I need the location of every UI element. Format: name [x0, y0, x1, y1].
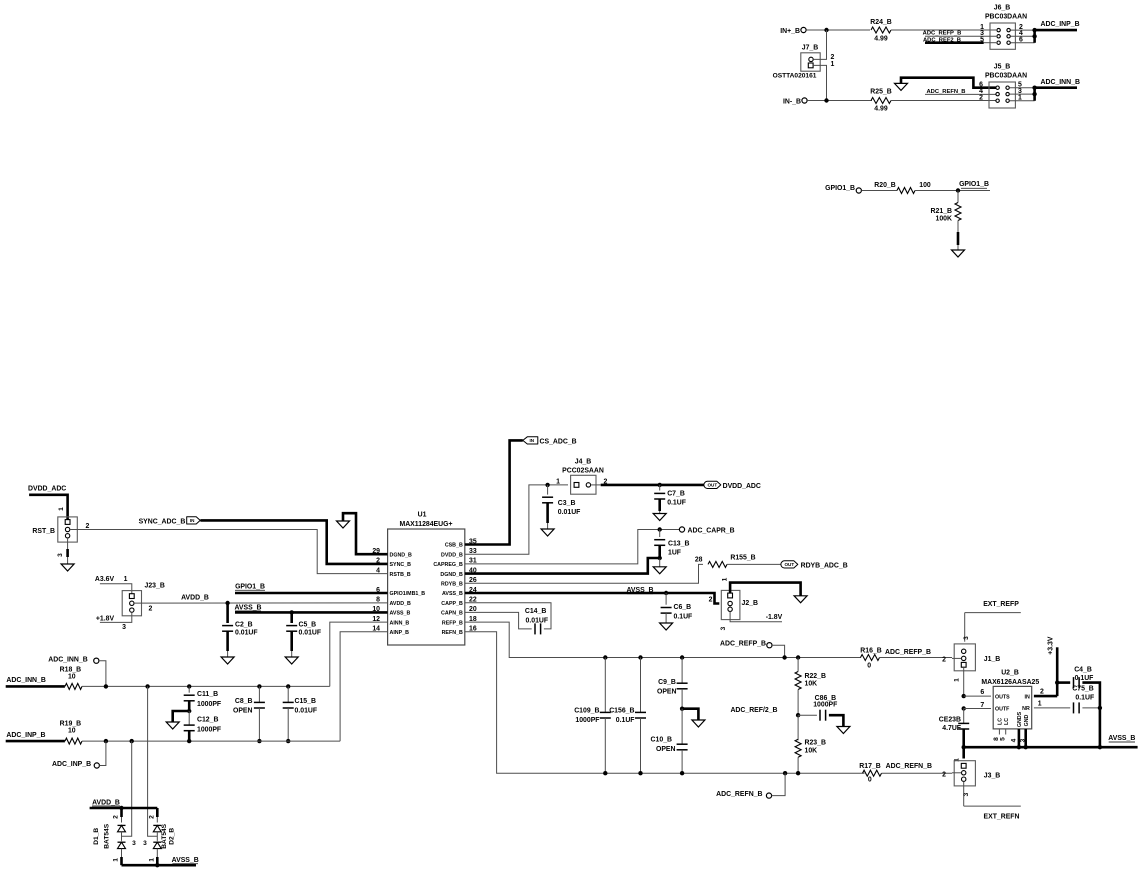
svg-text:1: 1 — [58, 507, 65, 511]
wire R24 to J6 pin1 — [891, 29, 996, 31]
capacitor C7_B plates — [654, 493, 665, 499]
power label +3.3V — [1048, 636, 1055, 655]
svg-text:100K: 100K — [936, 216, 952, 223]
wire AVDD_B diode — [90, 807, 158, 810]
U1 pin name DGND_B — [390, 552, 413, 558]
pin number 2 — [149, 606, 153, 613]
terminal IN+_B — [801, 27, 806, 32]
pin number 1 — [1018, 95, 1022, 102]
J5_B right pin 3 — [1006, 92, 1009, 95]
junction R23 bottom — [796, 771, 800, 775]
label J6_B — [994, 5, 1010, 12]
capacitor C4_B plates — [1074, 677, 1080, 688]
U1 pin name CAPN_B right — [441, 611, 463, 617]
wire J5 pin5 out — [1010, 87, 1035, 89]
svg-text:R16_B: R16_B — [860, 648, 881, 655]
diode D2 lower — [153, 842, 161, 848]
ground below C7 — [653, 514, 666, 521]
terminal ADC_INP_B bottom — [52, 761, 91, 768]
terminal GPIO1_B — [856, 188, 861, 193]
value C86_B 1000PF — [813, 701, 837, 708]
junction INN C15 — [286, 684, 290, 688]
wire J2 pin1 ground — [730, 583, 801, 596]
U2 pin name OUTF — [995, 707, 1010, 713]
net label GPIO1_B right — [959, 181, 989, 188]
U1 pin name GPIO1/MB1_B — [390, 591, 426, 597]
ground REF mid — [692, 720, 705, 727]
wire RST pin3 thick — [66, 549, 69, 557]
wire R22 bottom — [797, 690, 799, 716]
terminal IN-_B — [802, 98, 807, 103]
capacitor C12_B plates — [184, 725, 195, 731]
svg-text:0.01UF: 0.01UF — [558, 509, 581, 516]
wire C86 to ground — [829, 715, 844, 726]
svg-text:10K: 10K — [805, 681, 818, 688]
svg-text:AVSS_B: AVSS_B — [390, 611, 411, 617]
J6_B right pin 2 — [1007, 28, 1010, 31]
port SYNC_ADC_B — [139, 518, 186, 525]
wire C7 top — [659, 485, 661, 491]
wire pin26 up — [465, 564, 703, 583]
J2 pin 2 — [728, 601, 732, 605]
wire C13 ground stub — [659, 558, 661, 567]
wire J6 pin6 out — [1011, 42, 1035, 44]
junction INN terminal — [104, 684, 108, 688]
wire ADC_REFP tap — [772, 645, 785, 657]
svg-text:R155_B: R155_B — [730, 555, 755, 562]
net label ADC_REFP_B right — [885, 649, 931, 656]
ground symbol near J5 — [895, 83, 908, 90]
terminal ADC_INN_B top — [48, 657, 87, 664]
label R21_B — [931, 208, 952, 215]
svg-text:1000PF: 1000PF — [813, 701, 837, 708]
resistor R20_B — [897, 188, 915, 194]
wire R155 to port — [727, 563, 782, 565]
value C2_B 0.01UF — [235, 630, 258, 637]
connector J5_B body — [989, 82, 1015, 108]
resistor R18_B zigzag — [65, 683, 82, 689]
terminal ADC_CAPR_B — [679, 527, 684, 532]
label PBC03DAAN J6 — [985, 14, 1027, 21]
svg-text:C11_B: C11_B — [197, 691, 218, 698]
wire ADC_REFP_B to J6 pin3 — [925, 35, 996, 37]
pin 1 rotated D2 — [148, 858, 155, 862]
label C6_B — [674, 604, 692, 611]
wire bus ADC_INN_B — [1035, 88, 1077, 101]
port IN SYNC_ADC_B — [187, 517, 201, 524]
U1 pin number 10 — [372, 606, 380, 613]
junction J5 bus mid — [1032, 92, 1036, 96]
wire J2 pin3 — [730, 612, 782, 622]
wire A3.6V to J23 pin1 — [100, 584, 132, 594]
J1 pin 1 — [961, 662, 966, 667]
pin number 3 rotated — [720, 626, 727, 630]
net label AVSS_B diode — [172, 857, 199, 864]
svg-text:2: 2 — [149, 606, 153, 613]
wire ADC_REFN_B to J5 pin4 — [925, 93, 996, 95]
svg-text:IN-_B: IN-_B — [783, 99, 801, 106]
terminal ADC_REFP_B — [720, 640, 766, 647]
U1 pin number 8 — [376, 597, 380, 604]
wire C4 left — [1057, 681, 1070, 684]
value R16_B 0 — [867, 662, 871, 669]
label R23_B — [805, 740, 826, 747]
wire J5 pin1 out — [1010, 100, 1035, 102]
wire C156 bottom — [640, 718, 642, 773]
svg-text:OUTS: OUTS — [995, 694, 1010, 700]
pin number 2 — [942, 657, 946, 664]
label J5_B — [994, 64, 1010, 71]
diode D2 upper — [153, 825, 161, 831]
ground below C2 — [221, 657, 234, 664]
net label ADC_REF/2_B — [730, 707, 777, 714]
wire C75 right — [1082, 707, 1100, 709]
junction INP D1 riser — [130, 739, 134, 743]
junction C13 / DGND pin40 — [658, 556, 662, 560]
label C8_B — [235, 698, 253, 705]
svg-text:LC: LC — [1004, 718, 1010, 725]
wire GPIO1 to R21 — [957, 191, 959, 203]
label J2_B — [742, 600, 758, 607]
resistor R16_B zigzag — [861, 655, 880, 661]
junction J6 bus top — [1032, 28, 1036, 32]
value C156_B 0.1UF — [616, 717, 635, 724]
wire NR to C75 — [1034, 707, 1070, 709]
J3 pin 1 — [961, 763, 966, 768]
svg-text:SYNC_B: SYNC_B — [390, 562, 412, 568]
wire mid to ground — [682, 709, 698, 720]
svg-text:R23_B: R23_B — [805, 740, 826, 747]
net label ADC_INN_B — [1041, 79, 1080, 86]
value C75_B 0.1UF — [1075, 695, 1094, 702]
junction R22 top — [796, 655, 800, 659]
svg-text:IN: IN — [1024, 694, 1029, 700]
value R24_B 4.99 — [874, 36, 888, 43]
svg-text:2: 2 — [1040, 689, 1044, 696]
wire C3 ground stub — [547, 523, 549, 529]
net label GPIO1_B — [235, 584, 265, 591]
svg-text:ADC_REFN_B: ADC_REFN_B — [716, 791, 762, 798]
svg-text:R22_B: R22_B — [805, 673, 826, 680]
wire J5 pin3 out — [1010, 93, 1035, 95]
connector J2_B body — [721, 590, 740, 619]
capacitor C10_B plates — [677, 744, 688, 750]
svg-text:0.01UF: 0.01UF — [299, 630, 322, 637]
junction INP terminal — [104, 739, 108, 743]
label J7_B — [802, 45, 818, 52]
wire +1.8V to J23 pin3 — [100, 612, 132, 622]
J4 pin 2 — [586, 483, 590, 487]
wire pin40 to C13 node — [465, 558, 660, 574]
U1 pin number 24 — [469, 587, 477, 594]
wire AVSS to J3 pin1 — [962, 747, 965, 758]
svg-text:R21_B: R21_B — [931, 208, 952, 215]
U1 pin number 26 — [469, 577, 477, 584]
pin number 2 U2 — [1040, 689, 1044, 696]
svg-text:R17_B: R17_B — [859, 763, 880, 770]
pin number 5 rotated — [999, 737, 1006, 741]
wire C10 top — [681, 709, 683, 744]
svg-text:2: 2 — [148, 815, 155, 819]
wire LC1 stub — [998, 729, 1000, 735]
svg-text:1UF: 1UF — [668, 550, 681, 557]
U1 pin name AVSS_B — [390, 611, 411, 617]
pin 2 rotated D1 — [113, 815, 120, 819]
J3 pin 3 — [962, 777, 966, 781]
junction INN C8 — [257, 684, 261, 688]
svg-text:0.1UF: 0.1UF — [674, 614, 693, 621]
capacitor C13_B plates — [654, 540, 665, 546]
svg-text:A3.6V: A3.6V — [95, 576, 115, 583]
U1 pin name RSTB_B — [390, 572, 411, 578]
svg-text:1: 1 — [148, 858, 155, 862]
label R16_B — [860, 648, 881, 655]
label PCC02SAAN — [562, 468, 604, 475]
resistor R24_B — [871, 27, 891, 33]
label R19_B — [60, 720, 81, 727]
svg-text:3: 3 — [143, 840, 147, 847]
pin 3 D2 — [143, 840, 147, 847]
ground below RST_B — [61, 564, 74, 571]
wire ADC_REF2_B to J6 pin5 — [984, 42, 996, 44]
svg-text:GPIO1/MB1_B: GPIO1/MB1_B — [390, 591, 426, 597]
connector J1_B body — [954, 644, 975, 671]
junction C7 tap — [658, 483, 662, 487]
net label ADC_INP_B — [1041, 21, 1080, 28]
junction INN D2 riser — [145, 684, 149, 688]
svg-text:2: 2 — [979, 95, 983, 102]
net label AVSS_B — [234, 605, 261, 612]
pin number 1 rotated J1 — [954, 678, 961, 682]
svg-text:CAPREG_B: CAPREG_B — [433, 562, 463, 568]
svg-text:J2_B: J2_B — [742, 600, 758, 607]
net label ADC_REFP_B at J6 — [923, 30, 962, 36]
wire EXT_REFP bar — [965, 612, 1021, 614]
wire R23 top — [797, 715, 799, 740]
svg-text:J23_B: J23_B — [145, 583, 165, 590]
svg-text:1000PF: 1000PF — [575, 717, 599, 724]
label C14_B — [525, 608, 546, 615]
label C11_B — [197, 691, 218, 698]
RST pin 2 — [65, 527, 69, 531]
U2 pin name NR — [1022, 706, 1030, 712]
ground symbol DGND — [337, 521, 350, 528]
svg-text:GPIO1_B: GPIO1_B — [825, 185, 855, 192]
power label A3.6V — [95, 576, 115, 583]
pin number 2 — [604, 478, 608, 485]
svg-text:3: 3 — [1019, 738, 1026, 742]
svg-text:1: 1 — [113, 858, 120, 862]
U2 pin name GND — [1024, 714, 1030, 726]
svg-text:R18_B: R18_B — [60, 667, 81, 674]
terminal circle ADC_INN_B — [94, 658, 99, 663]
junction C11/C12 mid — [187, 709, 191, 713]
svg-text:C5_B: C5_B — [299, 622, 317, 629]
ground below C5 — [285, 657, 298, 664]
pin number 1 — [980, 24, 984, 31]
wire C13 bottom — [658, 545, 661, 558]
label R17_B — [859, 763, 880, 770]
svg-text:3: 3 — [57, 553, 64, 557]
wire ADC_INP tap — [99, 741, 106, 765]
junction AVSS D2 — [155, 863, 159, 867]
power label -1.8V — [766, 614, 783, 621]
junction INP C15 — [286, 739, 290, 743]
junction IN- / J7 tap — [824, 98, 828, 102]
svg-text:3: 3 — [720, 626, 727, 630]
J6_B left pin 3 — [997, 35, 1000, 38]
svg-text:ADC_CAPR_B: ADC_CAPR_B — [688, 528, 735, 535]
junction C4 AVSS — [1098, 745, 1102, 749]
power label +1.8V — [96, 616, 115, 623]
svg-text:+1.8V: +1.8V — [96, 616, 115, 623]
net label ADC_REF2_B at J6 — [923, 37, 961, 43]
U1 pin number 40 — [469, 567, 477, 574]
wire C3 top — [547, 485, 549, 495]
svg-text:PBC03DAAN: PBC03DAAN — [985, 73, 1027, 80]
wire C8 top — [258, 686, 260, 702]
value C11_B 1000PF — [197, 701, 221, 708]
svg-text:R20_B: R20_B — [874, 182, 895, 189]
connector RST_B body — [58, 517, 78, 542]
pin label 28 — [695, 557, 703, 564]
value C7_B 0.1UF — [667, 499, 686, 506]
wire C15 bottom — [287, 708, 289, 741]
RST pin 3 — [65, 534, 69, 538]
svg-text:GNDS: GNDS — [1017, 711, 1023, 727]
wire R25 to J5 pin2 — [891, 100, 996, 102]
svg-text:C10_B: C10_B — [651, 736, 672, 743]
svg-text:LC: LC — [998, 718, 1004, 725]
svg-text:DVDD_ADC: DVDD_ADC — [28, 486, 66, 493]
svg-text:2: 2 — [942, 772, 946, 779]
pin number 8 rotated — [993, 737, 1000, 741]
wire OUTF — [964, 708, 991, 710]
U2 pin name IN — [1024, 694, 1029, 700]
pin number 1 — [831, 61, 835, 68]
label D1_B — [93, 828, 100, 845]
ground below C13 — [653, 567, 666, 574]
svg-text:3: 3 — [122, 624, 126, 631]
wire RST pin2 to RSTB pin4 — [70, 530, 388, 574]
label CE23B — [939, 717, 961, 724]
svg-text:J6_B: J6_B — [994, 5, 1010, 12]
wire AVSS_B to pin10 — [235, 611, 388, 614]
svg-text:C2_B: C2_B — [235, 622, 253, 629]
svg-text:CAPP_B: CAPP_B — [441, 601, 463, 607]
U2 pin name GNDS — [1017, 711, 1023, 727]
svg-text:C12_B: C12_B — [197, 716, 218, 723]
label C12_B — [197, 716, 218, 723]
ground below C3 — [541, 529, 554, 536]
U1 pin number 6 — [376, 587, 380, 594]
svg-text:-1.8V: -1.8V — [766, 614, 783, 621]
svg-text:RST_B: RST_B — [32, 528, 55, 535]
J5_B left pin 4 — [996, 92, 999, 95]
capacitor CE23B plates — [958, 723, 969, 729]
wire R21 lower — [957, 221, 959, 233]
wire C2 top — [226, 603, 229, 623]
svg-text:DVDD_B: DVDD_B — [441, 552, 463, 558]
net label AVSS_B mid — [626, 587, 653, 594]
svg-text:MAX6126AASA25: MAX6126AASA25 — [981, 679, 1039, 686]
svg-text:1: 1 — [556, 478, 560, 485]
svg-text:0.1UF: 0.1UF — [1075, 695, 1094, 702]
label C13_B — [668, 541, 689, 548]
wire GND stub — [1024, 729, 1027, 747]
pin number 4 rotated — [1011, 738, 1018, 742]
wire EXT_REFN bar — [964, 805, 1021, 807]
wire ADC_INP_B thick — [6, 740, 65, 743]
pin 2 rotated D2 — [148, 815, 155, 819]
svg-text:OUT: OUT — [707, 483, 717, 488]
wire pin24 to J2 pin2 — [465, 593, 720, 604]
wire R21 ground stub — [957, 245, 959, 250]
pin number 6 — [979, 82, 983, 89]
svg-text:C7_B: C7_B — [667, 491, 685, 498]
value R18_B 10 — [68, 674, 76, 681]
wire C6 bottom — [665, 613, 667, 623]
svg-text:C15_B: C15_B — [295, 698, 316, 705]
svg-text:BAT54S: BAT54S — [161, 823, 168, 848]
svg-text:1000PF: 1000PF — [197, 727, 221, 734]
svg-text:CS_ADC_B: CS_ADC_B — [540, 438, 577, 445]
wire CE23B bottom — [962, 729, 965, 747]
junction INP C12 — [187, 739, 191, 743]
terminal circle ADC_INP_B — [94, 763, 99, 768]
label J4_B — [575, 459, 591, 466]
svg-text:AINN_B: AINN_B — [390, 620, 410, 626]
svg-text:5: 5 — [999, 737, 1006, 741]
capacitor C109_B plates — [600, 712, 611, 718]
wire INN line — [82, 685, 330, 687]
value R21_B 100K — [936, 216, 952, 223]
svg-text:0: 0 — [867, 662, 871, 669]
junction C109 top — [603, 655, 607, 659]
wire pin12 to INN line — [330, 622, 388, 686]
svg-text:4.7UF: 4.7UF — [942, 725, 961, 732]
wire CSB pin35 to CS_ADC_B — [465, 440, 523, 544]
svg-text:U1: U1 — [418, 512, 427, 519]
wire C86 left — [798, 714, 817, 716]
svg-text:C6_B: C6_B — [674, 604, 692, 611]
value C9_B OPEN — [657, 688, 677, 695]
svg-text:10: 10 — [68, 728, 76, 735]
capacitor C3_B plates — [542, 497, 553, 503]
svg-text:OPEN: OPEN — [233, 707, 253, 714]
junction C13 tap — [658, 527, 662, 531]
wire D1 mid — [121, 832, 123, 841]
terminal circle ADC_REFN_B — [766, 793, 771, 798]
label D2_B — [169, 828, 176, 845]
wire J3 pin3 down — [963, 782, 965, 807]
wire C6 top — [665, 593, 667, 605]
label C10_B — [651, 736, 672, 743]
svg-text:IN: IN — [190, 518, 195, 523]
svg-text:J5_B: J5_B — [994, 64, 1010, 71]
pin number 1 rotated — [58, 507, 65, 511]
capacitor C11_B plates — [184, 695, 195, 701]
U1 pin number 16 — [469, 626, 477, 633]
wire C7 ground stub — [659, 511, 661, 513]
pin number 6 — [1019, 37, 1023, 44]
junction OUTF — [962, 706, 966, 710]
junction J4 pin1 / C3 — [545, 483, 549, 487]
resistor R22_B zigzag — [795, 672, 801, 690]
svg-text:2: 2 — [831, 54, 835, 61]
wire DVDD_ADC out — [601, 484, 705, 487]
junction C109 bottom — [603, 771, 607, 775]
